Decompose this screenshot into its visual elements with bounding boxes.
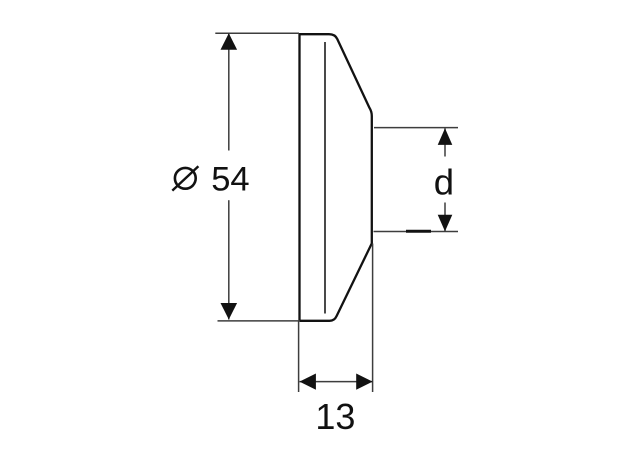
arrowhead 13 left bbox=[300, 374, 316, 390]
arrowhead Ø54 down bbox=[221, 303, 238, 320]
dimension line 13 bbox=[300, 381, 373, 383]
extension line right (13) bbox=[372, 244, 374, 393]
arrowhead d down bbox=[438, 215, 453, 232]
dimension line Ø54 lower segment bbox=[228, 200, 230, 319]
dimension line d lower segment bbox=[444, 203, 446, 232]
arrowhead 13 right bbox=[356, 374, 372, 390]
extension line bottom (d) bbox=[374, 231, 459, 233]
inner tangent edge line bbox=[324, 42, 326, 314]
svg-text:13: 13 bbox=[315, 396, 355, 437]
extension line top (d) bbox=[374, 127, 458, 129]
extension line left (13) bbox=[298, 321, 300, 392]
arrowhead Ø54 up bbox=[221, 33, 238, 50]
thick dash on bottom d extension bbox=[406, 230, 431, 233]
svg-text:d: d bbox=[434, 162, 454, 203]
dimension line Ø54 upper segment bbox=[228, 33, 230, 150]
dimension line d upper segment bbox=[444, 128, 446, 156]
extension line bottom (Ø54) bbox=[218, 320, 300, 322]
arrowhead d up bbox=[438, 128, 453, 145]
diameter symbol Ø bbox=[172, 166, 198, 190]
extension line top (Ø54) bbox=[215, 32, 299, 34]
svg-text:54: 54 bbox=[211, 161, 249, 199]
part outline (escutcheon side view) bbox=[300, 34, 372, 321]
